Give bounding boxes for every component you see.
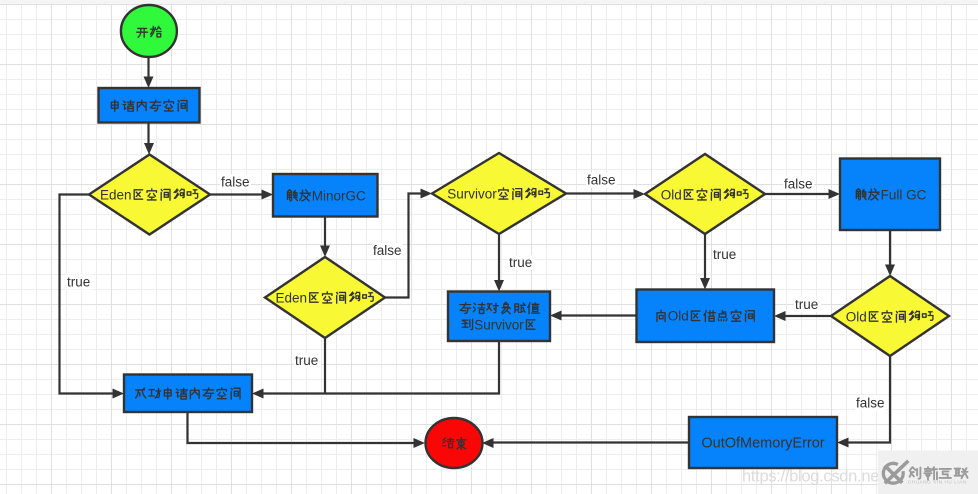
label backgrounds — [66, 173, 886, 411]
wire Eden2 down joining collector (true) — [324, 338, 326, 394]
arrowhead into rect1 — [144, 77, 154, 89]
text Eden2 CJK 区空间够吗 — [310, 292, 373, 303]
svg-text:Survivor: Survivor — [447, 187, 497, 202]
wire Survivor down to assign box (true) — [498, 234, 500, 285]
arrowhead into FullGC — [829, 189, 841, 199]
arrowhead into end left — [414, 438, 426, 448]
arrowhead into success box left — [113, 389, 125, 399]
wire rect1 to Eden1 — [147, 123, 149, 148]
wire start to rect1 — [147, 58, 149, 82]
wire Eden1 to MinorGC (false) — [210, 193, 266, 195]
wire MinorGC to Eden2 — [324, 217, 326, 251]
diamond Eden1 — [89, 155, 210, 235]
wire Old2 to borrow box (true) — [781, 315, 831, 317]
wire assign box down then left to success box — [259, 341, 499, 394]
rect FullGC — [840, 159, 940, 231]
rect success — [124, 375, 252, 413]
arrowhead into Old2 top — [885, 265, 895, 277]
diamond Survivor — [432, 153, 566, 234]
latin parts of shape labels — [100, 187, 927, 452]
arrowhead into success box right — [252, 389, 264, 399]
svg-text:true: true — [67, 275, 90, 290]
text 开始 — [137, 26, 161, 37]
svg-text:Eden: Eden — [276, 290, 308, 305]
text 触发 (MinorGC) — [288, 190, 311, 201]
svg-text:Survivor: Survivor — [474, 317, 524, 332]
rect OutOfMemoryError — [689, 417, 837, 468]
svg-text:Old: Old — [668, 309, 689, 324]
text Eden1 CJK 区空间够吗 — [134, 189, 197, 200]
wire borrow box to assign box — [557, 314, 637, 316]
start ellipse — [121, 5, 177, 57]
arrowhead into Survivor — [421, 189, 433, 199]
svg-text:https://blog.csdn.net: https://blog.csdn.net — [742, 468, 884, 486]
CJK texts drawn as strokes — [111, 26, 933, 449]
edge labels — [67, 173, 885, 411]
arrowhead into Eden1 — [144, 143, 154, 155]
arrowhead into borrow box right — [774, 311, 786, 321]
arrowhead into Eden2 — [320, 246, 330, 258]
svg-text:OutOfMemoryError: OutOfMemoryError — [701, 436, 824, 452]
text 结束 — [443, 438, 466, 450]
rect request memory — [99, 88, 200, 123]
arrowhead into Old1 — [634, 189, 646, 199]
svg-text:Old: Old — [846, 309, 867, 324]
svg-text:MinorGC: MinorGC — [312, 188, 366, 203]
end ellipse — [426, 418, 483, 468]
rect assign survivors — [448, 292, 550, 342]
wire Eden2 right up to Survivor (false) — [385, 194, 425, 298]
logo mark ring — [883, 463, 903, 483]
text 申请内存空间 — [111, 100, 187, 111]
arrowhead into assign box top — [494, 280, 504, 292]
text Old2 CJK 区空间够吗 — [869, 311, 932, 322]
svg-text:false: false — [221, 175, 250, 190]
svg-text:false: false — [784, 177, 813, 192]
wire Old1 to FullGC (false) — [765, 193, 833, 195]
svg-text:true: true — [295, 353, 318, 368]
svg-text:CHUANG XIN HU LIAN: CHUANG XIN HU LIAN — [908, 480, 967, 485]
wire Old2 down left to OOM (false) — [844, 356, 890, 443]
svg-text:Full GC: Full GC — [881, 187, 927, 202]
text 到 (Survivor区) — [462, 319, 472, 330]
svg-text:false: false — [373, 243, 402, 258]
svg-text:true: true — [795, 297, 818, 312]
wire OOM left to end — [489, 441, 689, 443]
logo panel — [878, 451, 978, 494]
arrowhead into end right — [482, 438, 494, 448]
text Old1 CJK 区空间够吗 — [684, 189, 747, 200]
logo CJK 创新互联 — [910, 467, 968, 480]
arrowhead into MinorGC — [262, 190, 274, 200]
arrowhead into assign box right — [550, 311, 562, 321]
logo mark X — [885, 461, 909, 484]
wire Eden1 left down to success box (true) — [60, 195, 118, 394]
svg-text:false: false — [856, 396, 885, 411]
svg-text:Eden: Eden — [100, 187, 132, 202]
text 向 (Old区借点空间) — [657, 310, 665, 321]
arrowhead into OOM right — [837, 438, 849, 448]
rect MinorGC — [273, 174, 378, 217]
text 存活对象赋值 — [460, 302, 539, 313]
wire Old1 down to borrow box (true) — [704, 234, 706, 283]
svg-text:Old: Old — [661, 187, 682, 202]
diamond Eden2 — [265, 257, 385, 338]
diamond Old2 — [831, 276, 949, 356]
arrowhead into borrow box top — [700, 278, 710, 290]
text 区借点空间 — [692, 310, 755, 321]
rect borrow Old — [637, 290, 775, 343]
text Survivor CJK 空间够吗 — [499, 188, 550, 199]
text 区 (after Survivor) — [526, 320, 534, 329]
wire FullGC down to Old2 — [889, 230, 891, 269]
text 触发 (Full GC) — [856, 189, 879, 200]
wire Survivor to Old1 (false) — [566, 192, 638, 194]
svg-text:true: true — [713, 247, 736, 262]
text 成功申请内存空间 — [136, 388, 240, 399]
svg-text:true: true — [509, 255, 532, 270]
wire success box down right to end — [188, 412, 419, 443]
svg-text:false: false — [587, 173, 616, 188]
diamond Old1 — [645, 154, 765, 234]
